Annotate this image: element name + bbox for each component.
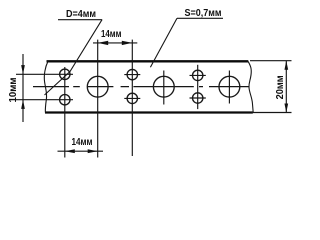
svg-text:14мм: 14мм [101,28,122,40]
right 20mm top arrow (pointing up) [284,61,288,70]
large hole 1 [87,76,108,97]
horizontal centerline (dash-dot) [33,86,250,88]
pair 1 vertical centerline / bottom-dim extension [64,67,66,158]
leader for D=4mm (kinked polyline) [45,20,103,95]
bottom 14mm dimension line [58,150,104,152]
top 14mm right arrow [122,41,133,45]
left 10mm top arrow (pointing down) [21,65,25,74]
top 14mm dimension line [93,42,137,44]
large hole 2 vertical centerline [163,71,165,105]
hole pair 2 top [127,69,137,79]
large hole 3 [219,76,240,97]
hole pair 3 bottom [193,93,203,103]
leader for S=0,7mm [150,18,177,67]
left 10mm bottom arrow (pointing up) [21,100,25,109]
underline of D=4mm label [58,19,102,21]
strip right break edge (wavy) [248,61,253,112]
pair 1 top crosshair + left 10mm extension line [16,73,73,75]
svg-text:10мм: 10мм [7,77,19,102]
left 10mm dimension line [22,54,24,122]
bottom 14mm left arrow [65,149,75,153]
right 20mm bottom arrow (pointing down) [284,104,288,113]
hole pair 1 top (D=4) [60,69,70,79]
large hole 2 [153,76,174,97]
svg-text:S=0,7мм: S=0,7мм [185,7,222,19]
right 20mm dimension line [285,61,287,113]
strip bottom edge [45,111,253,113]
right 20mm bottom extension line [252,112,292,114]
pair 3 bottom crosshair [190,97,206,99]
underline of S=0,7mm label [177,17,223,19]
top 14mm left arrow [98,41,109,45]
pair 3 top crosshair [190,74,206,76]
bottom 14mm right arrow [88,149,98,153]
large hole 1 vertical centerline / top+bottom dim extension [97,40,99,158]
svg-text:20мм: 20мм [274,75,286,99]
pair 2 top crosshair [124,74,140,76]
pair 2 bottom crosshair [124,97,140,99]
svg-text:D=4мм: D=4мм [66,8,96,20]
pair 2 vertical centerline / top dim extension [131,40,133,156]
pair 1 bottom crosshair + left 10mm extension line [15,99,73,101]
large hole 3 vertical centerline [228,71,230,104]
hole pair 1 bottom [60,95,70,105]
strip top edge [47,60,249,62]
hole pair 3 top [193,70,203,80]
svg-text:14мм: 14мм [72,136,93,148]
strip left break edge (wavy) [44,61,48,112]
hole pair 2 bottom [127,93,137,103]
pair 3 vertical centerline [197,65,199,109]
right 20mm top extension line [250,60,292,62]
